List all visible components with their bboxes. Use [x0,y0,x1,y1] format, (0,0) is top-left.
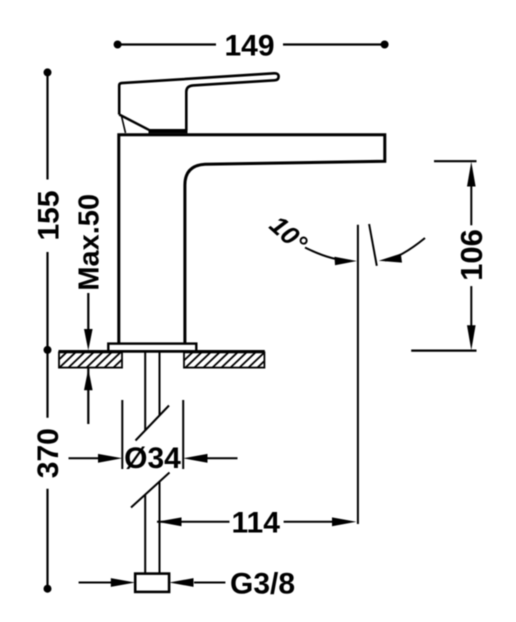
countertop hatched section [50,351,275,368]
water stream axis line [357,225,359,524]
svg-text:155: 155 [33,190,66,240]
dimension Ø34 [69,400,238,475]
label Max.50 with arrows [74,194,106,424]
dimension 370 left lower [32,350,65,593]
svg-text:G3/8: G3/8 [230,568,295,601]
10 degree slanted line [369,224,377,266]
dimension 155 left [33,68,66,354]
svg-text:Ø34: Ø34 [124,442,181,475]
supply pipe [145,352,159,574]
dimension 106 right [411,161,489,350]
faucet base flange [108,344,196,352]
dimension 114 [157,506,356,539]
dimension 149 top [114,30,389,63]
svg-text:Max.50: Max.50 [74,194,106,291]
left curved arrow to axis [305,248,357,266]
svg-text:106: 106 [454,229,489,281]
G3/8 label with arrows [79,568,295,601]
svg-text:370: 370 [32,428,65,478]
svg-text:149: 149 [224,30,274,63]
G3/8 connector rectangle [135,574,169,592]
svg-text:10°: 10° [264,210,314,259]
svg-text:114: 114 [231,506,280,539]
right curved arrow to slanted line [379,238,425,263]
faucet body and spout [119,135,385,344]
faucet handle lever [119,73,278,133]
pipe break marks [131,406,170,508]
